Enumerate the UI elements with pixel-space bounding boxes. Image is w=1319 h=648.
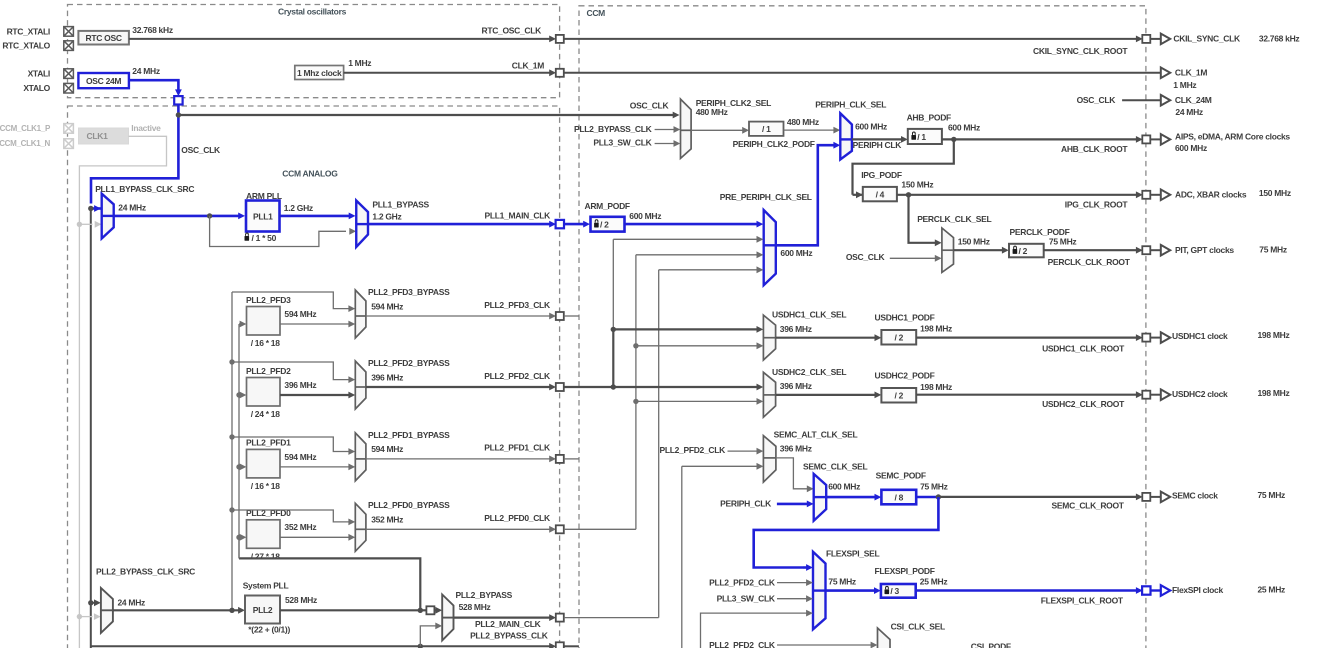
svg-text:AHB_CLK_ROOT: AHB_CLK_ROOT <box>1061 144 1128 154</box>
svg-text:396 MHz: 396 MHz <box>780 381 812 391</box>
svg-text:PLL2_PFD1_CLK: PLL2_PFD1_CLK <box>484 443 551 453</box>
svg-text:/ 16 * 18: / 16 * 18 <box>251 338 281 348</box>
svg-text:PERCLK_PODF: PERCLK_PODF <box>1010 227 1070 237</box>
svg-text:XTALI: XTALI <box>28 68 50 78</box>
svg-text:CKIL_SYNC_CLK: CKIL_SYNC_CLK <box>1173 33 1241 43</box>
svg-text:RTC_XTALI: RTC_XTALI <box>7 26 50 36</box>
svg-text:Crystal oscillators: Crystal oscillators <box>278 6 347 16</box>
svg-text:USDHC2_CLK_ROOT: USDHC2_CLK_ROOT <box>1042 399 1125 409</box>
svg-text:CSI_CLK_SEL: CSI_CLK_SEL <box>891 621 945 631</box>
svg-text:OSC_CLK: OSC_CLK <box>1077 95 1117 105</box>
svg-text:USDHC1_CLK_ROOT: USDHC1_CLK_ROOT <box>1042 344 1125 354</box>
svg-text:CCM: CCM <box>587 8 606 18</box>
svg-text:150 MHz: 150 MHz <box>1259 188 1291 198</box>
svg-text:PLL2: PLL2 <box>253 605 273 615</box>
svg-text:/ 2: / 2 <box>600 220 609 230</box>
svg-text:396 MHz: 396 MHz <box>284 380 316 390</box>
svg-text:USDHC2 clock: USDHC2 clock <box>1172 389 1228 399</box>
svg-text:CKIL_SYNC_CLK_ROOT: CKIL_SYNC_CLK_ROOT <box>1033 46 1128 56</box>
svg-text:FLEXSPI_CLK_ROOT: FLEXSPI_CLK_ROOT <box>1041 595 1124 605</box>
svg-text:PLL2_PFD3_BYPASS: PLL2_PFD3_BYPASS <box>368 287 450 297</box>
svg-text:75 MHz: 75 MHz <box>828 577 856 587</box>
svg-text:RTC OSC: RTC OSC <box>86 33 122 43</box>
svg-text:PERIPH CLK: PERIPH CLK <box>853 140 903 150</box>
svg-text:PLL1: PLL1 <box>253 211 273 221</box>
svg-text:25 MHz: 25 MHz <box>1258 584 1286 594</box>
svg-text:PLL2_PFD2_CLK: PLL2_PFD2_CLK <box>659 445 726 455</box>
svg-text:PLL3_SW_CLK: PLL3_SW_CLK <box>593 138 652 148</box>
svg-text:75 MHz: 75 MHz <box>1258 490 1286 500</box>
svg-text:USDHC2_PODF: USDHC2_PODF <box>875 371 935 381</box>
svg-text:SEMC_PODF: SEMC_PODF <box>876 471 926 481</box>
svg-text:PLL2_PFD0_BYPASS: PLL2_PFD0_BYPASS <box>368 500 450 510</box>
svg-text:/ 27 * 18: / 27 * 18 <box>251 551 281 561</box>
svg-text:75 MHz: 75 MHz <box>920 482 948 492</box>
svg-text:PLL1_BYPASS: PLL1_BYPASS <box>372 199 429 209</box>
svg-text:594 MHz: 594 MHz <box>284 452 316 462</box>
svg-text:OSC 24M: OSC 24M <box>86 76 121 86</box>
svg-text:IPG_CLK_ROOT: IPG_CLK_ROOT <box>1065 200 1129 210</box>
svg-text:OSC_CLK: OSC_CLK <box>630 101 670 111</box>
svg-text:150 MHz: 150 MHz <box>958 236 990 246</box>
svg-text:1 Mhz clock: 1 Mhz clock <box>297 68 342 78</box>
svg-text:SEMC_CLK_ROOT: SEMC_CLK_ROOT <box>1052 501 1125 511</box>
svg-text:198 MHz: 198 MHz <box>1258 330 1290 340</box>
svg-text:OSC_CLK: OSC_CLK <box>846 252 886 262</box>
svg-text:352 MHz: 352 MHz <box>371 515 403 525</box>
svg-text:/ 2: / 2 <box>895 391 904 401</box>
svg-text:FlexSPI clock: FlexSPI clock <box>1172 585 1223 595</box>
svg-text:PLL2_PFD3: PLL2_PFD3 <box>246 295 291 305</box>
svg-text:/ 3: / 3 <box>890 586 899 596</box>
svg-text:PLL1_MAIN_CLK: PLL1_MAIN_CLK <box>484 210 551 220</box>
svg-text:PLL2_PFD1: PLL2_PFD1 <box>246 438 291 448</box>
svg-text:PLL2_PFD2_CLK: PLL2_PFD2_CLK <box>709 577 776 587</box>
svg-text:594 MHz: 594 MHz <box>371 301 403 311</box>
svg-text:396 MHz: 396 MHz <box>371 372 403 382</box>
svg-text:PLL2_BYPASS_CLK_SRC: PLL2_BYPASS_CLK_SRC <box>96 567 195 577</box>
svg-text:25 MHz: 25 MHz <box>920 577 948 587</box>
svg-text:CCM_CLK1_N: CCM_CLK1_N <box>0 139 51 148</box>
svg-text:PLL2_PFD2_CLK: PLL2_PFD2_CLK <box>709 640 776 648</box>
svg-text:SEMC_CLK_SEL: SEMC_CLK_SEL <box>803 461 868 471</box>
svg-text:PERIPH_CLK_SEL: PERIPH_CLK_SEL <box>815 100 886 110</box>
svg-text:/ 1 * 50: / 1 * 50 <box>252 233 277 243</box>
svg-text:*(22 + (0/1)): *(22 + (0/1)) <box>248 625 290 635</box>
svg-text:USDHC1_CLK_SEL: USDHC1_CLK_SEL <box>772 310 846 320</box>
svg-text:600 MHz: 600 MHz <box>855 122 887 132</box>
svg-text:USDHC2_CLK_SEL: USDHC2_CLK_SEL <box>772 367 846 377</box>
svg-text:RTC_XTALO: RTC_XTALO <box>2 41 50 51</box>
svg-text:24 MHz: 24 MHz <box>132 66 160 76</box>
svg-text:IPG_PODF: IPG_PODF <box>861 170 902 180</box>
svg-text:/ 1: / 1 <box>762 124 771 134</box>
svg-text:AHB_PODF: AHB_PODF <box>907 112 951 122</box>
svg-text:24 MHz: 24 MHz <box>118 597 146 607</box>
svg-text:/ 2: / 2 <box>1019 246 1028 256</box>
svg-text:PLL2_PFD2_CLK: PLL2_PFD2_CLK <box>484 371 551 381</box>
svg-text:Inactive: Inactive <box>131 123 161 133</box>
svg-text:PLL2_PFD3_CLK: PLL2_PFD3_CLK <box>484 300 551 310</box>
svg-text:396 MHz: 396 MHz <box>780 324 812 334</box>
svg-text:594 MHz: 594 MHz <box>284 309 316 319</box>
svg-text:600 MHz: 600 MHz <box>629 211 661 221</box>
svg-text:150 MHz: 150 MHz <box>901 180 933 190</box>
svg-text:PLL2_PFD2_BYPASS: PLL2_PFD2_BYPASS <box>368 358 450 368</box>
svg-text:1 MHz: 1 MHz <box>348 58 371 68</box>
svg-text:75 MHz: 75 MHz <box>1049 236 1077 246</box>
svg-text:SEMC clock: SEMC clock <box>1172 490 1218 500</box>
svg-text:600 MHz: 600 MHz <box>948 123 980 133</box>
svg-text:1.2 GHz: 1.2 GHz <box>372 211 401 221</box>
svg-text:PLL2_PFD0_CLK: PLL2_PFD0_CLK <box>484 513 551 523</box>
svg-text:600 MHz: 600 MHz <box>1175 143 1207 153</box>
svg-text:XTALO: XTALO <box>23 83 50 93</box>
svg-text:PIT, GPT clocks: PIT, GPT clocks <box>1175 245 1234 255</box>
svg-text:198 MHz: 198 MHz <box>920 382 952 392</box>
svg-text:198 MHz: 198 MHz <box>1258 388 1290 398</box>
svg-text:600 MHz: 600 MHz <box>780 248 812 258</box>
svg-text:PLL2_BYPASS_CLK: PLL2_BYPASS_CLK <box>470 631 549 641</box>
svg-text:32.768 kHz: 32.768 kHz <box>132 25 173 35</box>
svg-text:ADC, XBAR clocks: ADC, XBAR clocks <box>1175 189 1247 199</box>
svg-text:PLL1_BYPASS_CLK_SRC: PLL1_BYPASS_CLK_SRC <box>95 184 194 194</box>
svg-text:1 MHz: 1 MHz <box>1173 80 1196 90</box>
svg-text:PLL3_SW_CLK: PLL3_SW_CLK <box>717 593 776 603</box>
svg-text:FLEXSPI_SEL: FLEXSPI_SEL <box>826 548 879 558</box>
svg-text:32.768 kHz: 32.768 kHz <box>1259 33 1300 43</box>
svg-text:PLL2_MAIN_CLK: PLL2_MAIN_CLK <box>475 619 542 629</box>
svg-text:PERIPH_CLK: PERIPH_CLK <box>720 499 772 509</box>
svg-text:SEMC_ALT_CLK_SEL: SEMC_ALT_CLK_SEL <box>774 429 858 439</box>
svg-text:PRE_PERIPH_CLK_SEL: PRE_PERIPH_CLK_SEL <box>720 192 812 202</box>
svg-text:System PLL: System PLL <box>243 580 289 590</box>
svg-text:OSC_CLK: OSC_CLK <box>181 145 221 155</box>
svg-text:24 MHz: 24 MHz <box>1175 107 1203 117</box>
svg-text:ARM_PODF: ARM_PODF <box>585 201 630 211</box>
svg-text:PLL2_PFD1_BYPASS: PLL2_PFD1_BYPASS <box>368 430 450 440</box>
svg-text:528 MHz: 528 MHz <box>459 602 491 612</box>
svg-text:PLL2_PFD2: PLL2_PFD2 <box>246 366 291 376</box>
svg-text:CLK_1M: CLK_1M <box>512 61 544 71</box>
svg-text:600 MHz: 600 MHz <box>828 482 860 492</box>
svg-text:/ 24 * 18: / 24 * 18 <box>251 409 281 419</box>
svg-text:RTC_OSC_CLK: RTC_OSC_CLK <box>481 25 542 35</box>
svg-text:1.2 GHz: 1.2 GHz <box>284 203 313 213</box>
svg-text:/ 8: / 8 <box>895 492 904 502</box>
svg-text:480 MHz: 480 MHz <box>787 117 819 127</box>
svg-text:/ 4: / 4 <box>876 189 885 199</box>
svg-text:CLK_24M: CLK_24M <box>1175 95 1212 105</box>
svg-text:USDHC1 clock: USDHC1 clock <box>1172 331 1228 341</box>
svg-text:/ 2: / 2 <box>895 333 904 343</box>
svg-text:594 MHz: 594 MHz <box>371 444 403 454</box>
svg-text:FLEXSPI_PODF: FLEXSPI_PODF <box>875 566 935 576</box>
svg-text:24 MHz: 24 MHz <box>118 203 146 213</box>
svg-text:528 MHz: 528 MHz <box>285 595 317 605</box>
svg-text:PERIPH_CLK2_PODF: PERIPH_CLK2_PODF <box>733 139 815 149</box>
svg-text:AIPS, eDMA, ARM Core clocks: AIPS, eDMA, ARM Core clocks <box>1175 131 1290 141</box>
svg-text:CLK_1M: CLK_1M <box>1175 68 1207 78</box>
svg-text:PLL2_BYPASS_CLK: PLL2_BYPASS_CLK <box>574 124 653 134</box>
svg-text:CCM_CLK1_P: CCM_CLK1_P <box>0 124 51 133</box>
svg-text:PLL2_BYPASS: PLL2_BYPASS <box>456 590 513 600</box>
svg-text:480 MHz: 480 MHz <box>696 107 728 117</box>
svg-text:PERCLK_CLK_SEL: PERCLK_CLK_SEL <box>917 214 991 224</box>
svg-text:USDHC1_PODF: USDHC1_PODF <box>875 312 935 322</box>
svg-text:PERCLK_CLK_ROOT: PERCLK_CLK_ROOT <box>1048 257 1131 267</box>
svg-text:CCM ANALOG: CCM ANALOG <box>282 168 338 178</box>
svg-text:352 MHz: 352 MHz <box>284 522 316 532</box>
svg-text:CLK1: CLK1 <box>87 131 109 141</box>
svg-text:396 MHz: 396 MHz <box>780 444 812 454</box>
svg-text:/ 1: / 1 <box>917 132 926 142</box>
svg-text:CSI_PODF: CSI_PODF <box>971 642 1011 648</box>
svg-text:/ 16 * 18: / 16 * 18 <box>251 481 281 491</box>
svg-text:75 MHz: 75 MHz <box>1259 244 1287 254</box>
svg-text:198 MHz: 198 MHz <box>920 324 952 334</box>
